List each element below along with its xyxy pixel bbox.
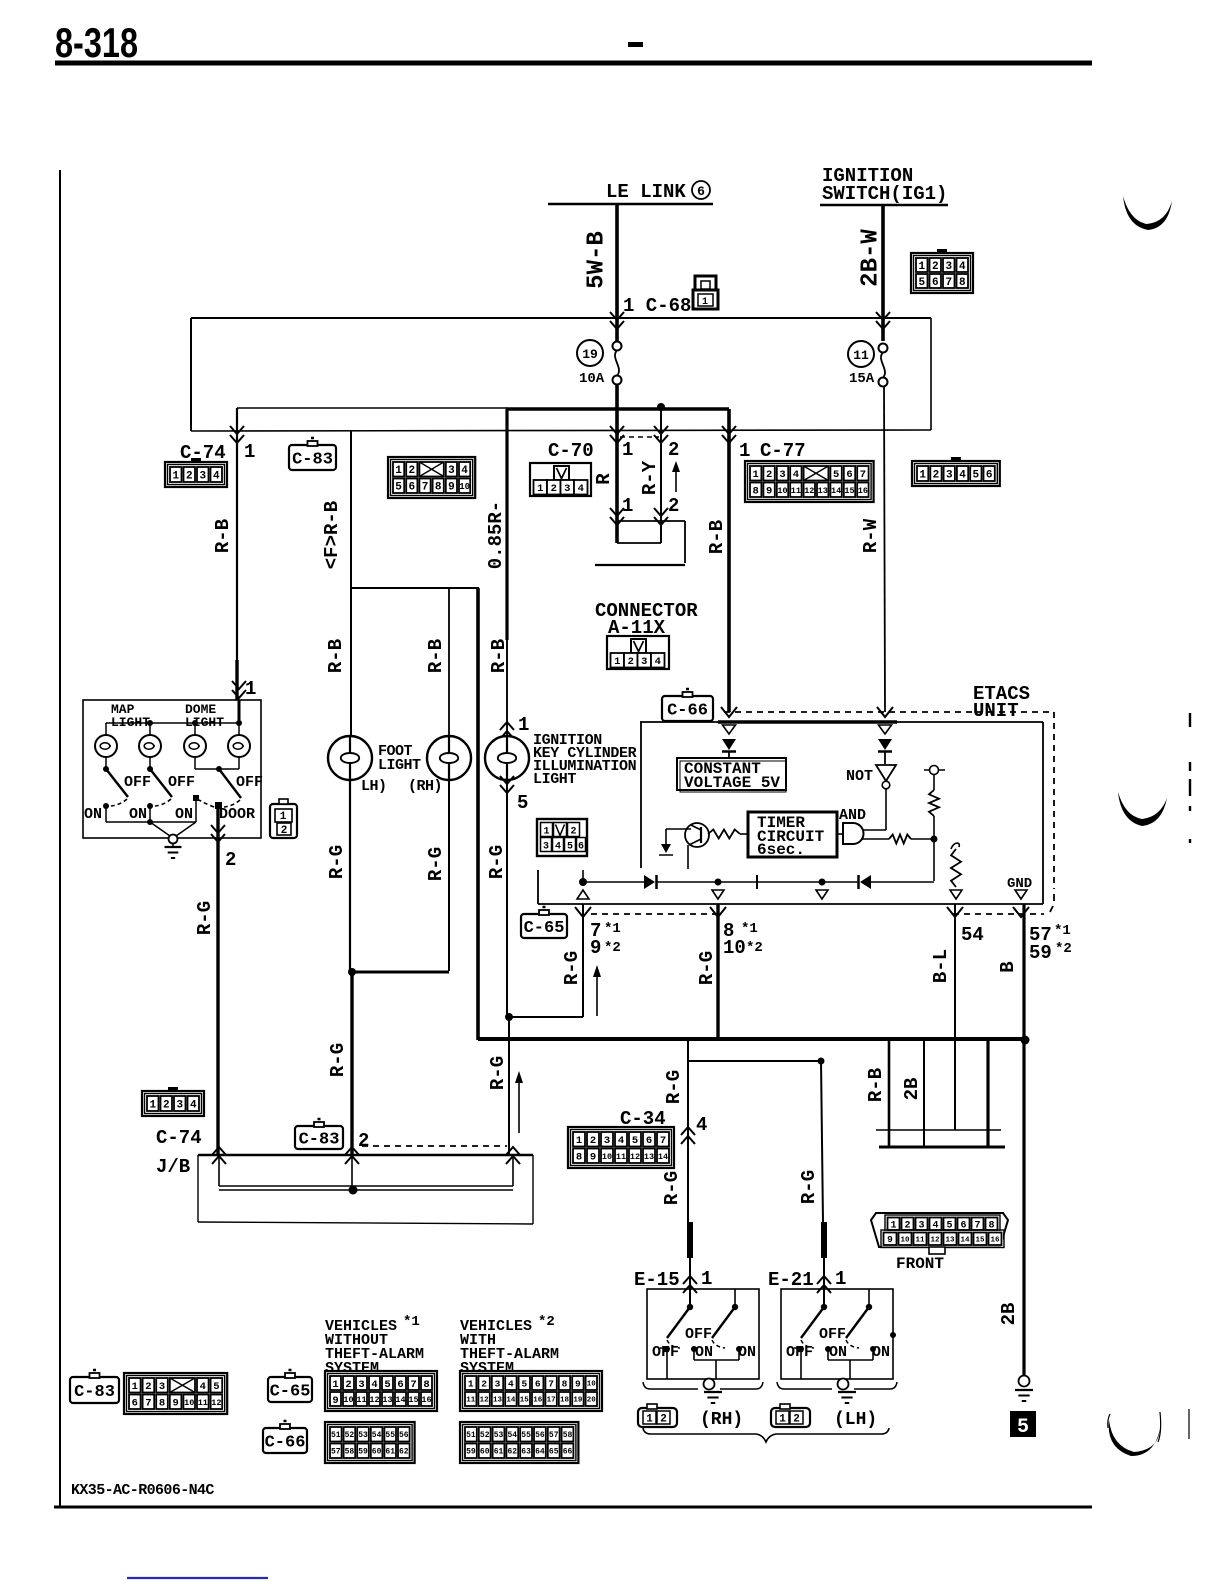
- constant voltage 5V box: [677, 758, 786, 790]
- svg-text:58: 58: [563, 1431, 573, 1440]
- svg-text:C-74: C-74: [156, 1127, 202, 1149]
- svg-text:5: 5: [973, 469, 980, 481]
- wire R-W from fuse 11 to ETACS: [884, 386, 885, 712]
- connector arrow at C-68 on bus: [610, 312, 624, 320]
- connector arrows at room lamp unit: [232, 681, 246, 689]
- svg-text:56: 56: [535, 1431, 545, 1440]
- E-21 contacts: [798, 1346, 804, 1352]
- svg-text:8: 8: [959, 277, 966, 289]
- svg-text:2B: 2B: [998, 1303, 1020, 1326]
- svg-text:1: 1: [172, 470, 179, 482]
- svg-text:14: 14: [960, 1236, 970, 1244]
- svg-text:R-G: R-G: [425, 847, 447, 881]
- svg-text:LIGHT: LIGHT: [533, 771, 576, 788]
- svg-text:R-B: R-B: [865, 1068, 887, 1102]
- svg-text:13: 13: [945, 1236, 955, 1244]
- svg-text:R-G: R-G: [194, 901, 216, 935]
- svg-text:2B: 2B: [901, 1078, 923, 1101]
- svg-text:11: 11: [915, 1236, 925, 1244]
- connector arrows J/B pin C-74: [212, 1147, 226, 1155]
- svg-text:R-G: R-G: [487, 1056, 509, 1090]
- svg-text:8: 8: [423, 1379, 429, 1391]
- connector arrow C-77 pin1 at bus2: [722, 426, 736, 434]
- svg-text:2: 2: [590, 1135, 596, 1147]
- svg-text:3: 3: [543, 842, 549, 853]
- connector block 10-pin: [388, 457, 475, 498]
- wire into E-21: [823, 1258, 825, 1307]
- connector arrows at E-15: [683, 1276, 697, 1284]
- junction dot pin 8/10: [715, 879, 722, 886]
- svg-text:2: 2: [628, 656, 634, 668]
- svg-text:ON: ON: [695, 1344, 713, 1361]
- header rule: [55, 61, 1092, 66]
- svg-text:5: 5: [213, 1381, 219, 1393]
- foot light LH lamp: [328, 736, 372, 780]
- svg-text:*2: *2: [746, 940, 763, 956]
- svg-text:19: 19: [582, 347, 598, 362]
- svg-text:14: 14: [395, 1395, 405, 1405]
- svg-text:R-B: R-B: [706, 520, 728, 554]
- room lamp feed wire: [106, 722, 239, 724]
- svg-text:3: 3: [946, 469, 953, 481]
- svg-text:4: 4: [508, 1378, 514, 1389]
- svg-text:12: 12: [804, 486, 814, 496]
- svg-text:16: 16: [990, 1236, 1000, 1244]
- wire to NOT gate: [884, 752, 886, 764]
- svg-text:4: 4: [655, 656, 661, 668]
- svg-text:4: 4: [793, 469, 799, 481]
- svg-text:*1: *1: [1054, 923, 1071, 939]
- svg-text:10: 10: [900, 1236, 910, 1244]
- svg-text:57: 57: [549, 1431, 559, 1440]
- wire R (C-70 pin 1, thick): [615, 431, 619, 543]
- fuse 11 15A: [879, 344, 888, 353]
- wire 2B-W from ignition switch: [881, 205, 885, 341]
- output pin marker 54: [950, 890, 962, 899]
- connector A-11X (4 pin with key): [607, 636, 669, 669]
- svg-text:14: 14: [506, 1397, 516, 1405]
- svg-text:3: 3: [358, 1379, 364, 1391]
- svg-text:54: 54: [372, 1431, 382, 1440]
- E-21 switch box: [781, 1289, 893, 1379]
- connector arrow pin 7/9: [575, 907, 591, 917]
- wire R1 to junction: [933, 816, 935, 839]
- switch 2 (map light): [147, 766, 153, 772]
- svg-text:OFF: OFF: [168, 774, 195, 791]
- svg-text:*1: *1: [604, 921, 621, 937]
- svg-text:B-L: B-L: [930, 949, 952, 983]
- E-15 switch arms: [667, 1307, 690, 1338]
- svg-text:4: 4: [959, 261, 966, 273]
- svg-text:6: 6: [397, 1379, 403, 1391]
- lamp 3/4 leads: [194, 757, 196, 769]
- svg-text:10: 10: [459, 482, 470, 492]
- svg-text:R-G: R-G: [663, 1070, 685, 1104]
- resistor R4 hook: [951, 843, 959, 849]
- svg-text:ON: ON: [872, 1344, 890, 1361]
- connector arrow C-70 pin2 at bus2: [654, 426, 668, 434]
- svg-text:1: 1: [332, 1379, 338, 1391]
- ON bus inside room lamp unit: [105, 806, 107, 822]
- svg-text:1: 1: [132, 1381, 138, 1393]
- svg-text:C-70: C-70: [548, 440, 594, 462]
- connector C-83 icon (top): [289, 445, 336, 470]
- svg-text:17: 17: [547, 1397, 556, 1405]
- svg-text:R-B: R-B: [425, 639, 447, 673]
- junction on branch wire: [657, 403, 665, 411]
- line below joint box: [595, 564, 685, 566]
- svg-text:OFF: OFF: [124, 774, 151, 791]
- connector block 6-pin keyed (key lamp): [537, 819, 587, 856]
- E-15 dashed throws: [667, 1340, 680, 1348]
- connector arrow pin 8/10: [710, 907, 726, 917]
- wire R-G below key lamp: [506, 780, 508, 1017]
- ground terminal room lamp: [169, 835, 178, 844]
- svg-text:15: 15: [844, 486, 854, 496]
- svg-text:R-G: R-G: [696, 951, 718, 985]
- svg-text:6: 6: [132, 1398, 138, 1410]
- svg-text:15: 15: [408, 1395, 418, 1405]
- E-15 switch box: [647, 1289, 759, 1379]
- svg-text:R-G: R-G: [326, 845, 348, 879]
- svg-text:R-G: R-G: [661, 1171, 683, 1205]
- svg-text:8: 8: [576, 1152, 582, 1164]
- svg-text:R-Y: R-Y: [639, 460, 661, 495]
- svg-text:NOT: NOT: [846, 768, 873, 785]
- svg-text:5: 5: [1017, 1416, 1029, 1439]
- svg-text:57: 57: [331, 1448, 341, 1457]
- diode D4: [860, 875, 871, 889]
- svg-text:C-66: C-66: [667, 702, 708, 721]
- ignition key cylinder illumination lamp: [485, 736, 529, 780]
- svg-text:6: 6: [846, 469, 852, 481]
- svg-text:2: 2: [551, 483, 557, 495]
- E-15 case bracket: [643, 1382, 698, 1389]
- joint RH to LH foot light wires: [352, 971, 449, 974]
- wire junction down: [933, 839, 935, 881]
- svg-text:C-83: C-83: [292, 451, 333, 470]
- dashed throw (switch3 to door contact): [199, 800, 214, 807]
- svg-text:7: 7: [660, 1135, 666, 1147]
- svg-text:1: 1: [835, 1268, 846, 1290]
- svg-text:2: 2: [345, 1379, 351, 1391]
- svg-text:(RH): (RH): [408, 778, 442, 795]
- svg-text:14: 14: [658, 1152, 668, 1162]
- wire B-L from pin 54: [954, 904, 956, 1130]
- E-15 terminal wires: [666, 1349, 668, 1379]
- svg-text:R: R: [593, 473, 615, 485]
- svg-text:3: 3: [779, 469, 785, 481]
- wire R-B to ETACS (thick): [727, 409, 731, 712]
- wire R-B stub: [888, 1039, 891, 1147]
- svg-text:4: 4: [190, 1099, 197, 1111]
- resistor R1 (vertical): [929, 790, 939, 816]
- svg-text:3: 3: [945, 261, 952, 273]
- connector block 8-pin (top right): [937, 249, 947, 255]
- svg-text:8-318: 8-318: [55, 19, 138, 66]
- branch to foot lights: [351, 587, 479, 589]
- svg-text:1: 1: [622, 495, 633, 517]
- svg-text:2: 2: [933, 469, 940, 481]
- svg-text:4: 4: [959, 469, 966, 481]
- svg-text:C-77: C-77: [760, 440, 806, 462]
- svg-text:ON: ON: [829, 1344, 847, 1361]
- svg-text:5: 5: [384, 1379, 390, 1391]
- svg-text:61: 61: [494, 1448, 504, 1457]
- svg-text:R-G: R-G: [486, 845, 508, 879]
- diagnosis connector: [871, 1213, 1008, 1247]
- svg-text:1: 1: [701, 1268, 712, 1290]
- svg-text:56: 56: [399, 1431, 409, 1440]
- branch wire below fuse 19 (horizontal, thin then thick): [237, 407, 507, 409]
- svg-text:60: 60: [480, 1448, 490, 1457]
- svg-text:R-G: R-G: [327, 1043, 349, 1077]
- room lamp unit box: [83, 700, 261, 838]
- wire R-G key lamp to junction: [508, 1017, 510, 1156]
- wire R-G to C-34/E-15: [687, 1039, 689, 1222]
- svg-text:6: 6: [408, 482, 415, 494]
- svg-text:LIGHT: LIGHT: [378, 757, 421, 774]
- svg-text:4: 4: [555, 842, 561, 853]
- connector arrow into ETACS (R-B): [721, 707, 737, 717]
- svg-text:10: 10: [723, 937, 746, 959]
- wire thick segment to E-15: [687, 1222, 693, 1258]
- wire to junction: [911, 838, 934, 840]
- connector arrows J/B pin 3: [506, 1147, 520, 1155]
- ETACS dashed border bottom right: [953, 913, 1044, 915]
- output pin marker GND: [1015, 890, 1027, 899]
- svg-text:*2: *2: [538, 1314, 555, 1330]
- svg-text:52: 52: [480, 1431, 490, 1440]
- svg-text:6: 6: [932, 277, 939, 289]
- svg-text:9: 9: [590, 937, 601, 959]
- svg-text:12: 12: [930, 1236, 940, 1244]
- svg-text:R-W: R-W: [860, 518, 882, 553]
- E-21 case bracket: [777, 1382, 832, 1389]
- svg-text:11: 11: [853, 348, 869, 363]
- connector block C-66 16-pin: [460, 1422, 578, 1463]
- svg-text:4: 4: [200, 1381, 206, 1393]
- connector arrows C-70 mating pin1: [610, 508, 624, 516]
- svg-text:1: 1: [468, 1378, 474, 1389]
- E-21 dashed throws: [801, 1340, 814, 1348]
- svg-text:8: 8: [435, 482, 442, 494]
- junction node in ETACS: [931, 836, 938, 843]
- svg-text:3: 3: [448, 465, 455, 477]
- svg-text:1 C-68: 1 C-68: [623, 295, 691, 317]
- junction dot E-21 branch: [818, 1058, 825, 1065]
- svg-text:1: 1: [702, 297, 708, 308]
- fuse 19 circled number: [577, 340, 603, 366]
- svg-text:3: 3: [199, 470, 206, 482]
- svg-text:59: 59: [358, 1448, 368, 1457]
- wire to door switches (thick): [216, 805, 219, 1156]
- svg-text:2: 2: [660, 1414, 667, 1426]
- internal bus wire d: [871, 881, 934, 883]
- wire 5W-B from fusible link: [615, 205, 619, 341]
- svg-text:SWITCH(IG1): SWITCH(IG1): [822, 183, 947, 205]
- ETACS box outline: [640, 721, 1043, 723]
- svg-text:R-B: R-B: [325, 639, 347, 673]
- svg-text:1: 1: [280, 811, 287, 823]
- svg-text:1: 1: [918, 261, 925, 273]
- svg-text:9: 9: [448, 482, 455, 494]
- internal pin stub 7/9: [582, 870, 584, 881]
- svg-text:1: 1: [244, 441, 255, 463]
- svg-text:8: 8: [753, 486, 759, 498]
- svg-text:1: 1: [245, 678, 256, 700]
- J/B internal wires: [218, 1155, 220, 1186]
- junction dot on E-21 box edge: [890, 1332, 896, 1338]
- wire R-G below RH lamp: [448, 780, 450, 971]
- svg-text:4: 4: [578, 483, 584, 495]
- svg-text:ON: ON: [175, 806, 193, 823]
- svg-text:4: 4: [213, 470, 220, 482]
- svg-text:*2: *2: [604, 940, 621, 956]
- svg-text:2: 2: [163, 1099, 170, 1111]
- svg-text:10A: 10A: [579, 371, 605, 387]
- wire 0.85R (thick): [505, 409, 508, 640]
- svg-text:7: 7: [410, 1379, 416, 1391]
- connector C-66 icon (ETACS): [662, 696, 713, 721]
- svg-text:1: 1: [576, 1135, 582, 1147]
- svg-text:KX35-AC-R0606-N4C: KX35-AC-R0606-N4C: [71, 1482, 214, 1499]
- svg-text:5: 5: [833, 469, 839, 481]
- svg-text:12: 12: [369, 1395, 379, 1405]
- connector C-83 icon (J/B): [295, 1126, 343, 1149]
- svg-text:65: 65: [549, 1448, 559, 1457]
- J/B box outline: [198, 1154, 533, 1157]
- dome light lamp 2: [238, 723, 240, 735]
- resistor R3 (AND output): [889, 835, 911, 844]
- connector arrow C-70 pin1 at bus2: [610, 426, 624, 434]
- svg-text:UNIT: UNIT: [973, 700, 1019, 722]
- switch 3 (dome light): [216, 766, 222, 772]
- ground ladder bar 1: [876, 1129, 1001, 1131]
- svg-text:7: 7: [945, 277, 952, 289]
- svg-text:55: 55: [521, 1431, 531, 1440]
- ETACS dashed border right: [1053, 712, 1055, 889]
- svg-text:C-83: C-83: [299, 1131, 340, 1150]
- svg-text:6: 6: [986, 469, 993, 481]
- ETACS dashed border bottom left: [591, 913, 718, 915]
- svg-text:2: 2: [186, 470, 193, 482]
- wire R-G trunk to J/B (thick): [350, 972, 353, 1156]
- svg-text:5: 5: [517, 792, 528, 814]
- svg-text:6: 6: [535, 1378, 541, 1389]
- svg-text:1: 1: [395, 465, 402, 477]
- wire stub (thick): [986, 1039, 989, 1147]
- dashed connector tie C-70: [620, 436, 659, 438]
- joint box below C-70: [617, 520, 685, 522]
- connector arrows C-34: [681, 1127, 695, 1135]
- svg-text:2: 2: [358, 1130, 369, 1152]
- connector C-65 icon (ETACS pins): [521, 914, 567, 938]
- svg-text:2: 2: [145, 1381, 151, 1393]
- foot light RH lamp: [427, 736, 471, 780]
- page left border: [59, 170, 61, 1508]
- direction arrow (lower R-G): [518, 1078, 520, 1133]
- svg-text:6: 6: [646, 1135, 652, 1147]
- svg-text:15: 15: [975, 1236, 985, 1244]
- transistor Q1: [685, 823, 709, 847]
- svg-text:OFF: OFF: [685, 1326, 712, 1343]
- connector block C-34 14-pin: [568, 1127, 674, 1168]
- E-21 connector 1/2 icon: [771, 1408, 810, 1427]
- main thick bus R-G: [478, 1037, 1025, 1041]
- direction arrow (R-Y): [675, 466, 677, 492]
- svg-text:2: 2: [766, 469, 772, 481]
- svg-text:7: 7: [860, 469, 866, 481]
- svg-text:12: 12: [480, 1397, 490, 1405]
- wire R-B to foot light RH: [448, 588, 450, 736]
- connector arrow C-74 pin1 at bus2: [230, 426, 244, 434]
- svg-text:3: 3: [176, 1099, 183, 1111]
- svg-text:2: 2: [408, 465, 415, 477]
- svg-text:5: 5: [521, 1378, 527, 1389]
- svg-text:64: 64: [535, 1448, 545, 1457]
- E-15 ground terminal: [704, 1379, 715, 1390]
- wire thick segment to E-21: [821, 1222, 827, 1258]
- svg-text:59: 59: [466, 1448, 476, 1457]
- svg-text:2: 2: [793, 1414, 800, 1426]
- svg-text:ON: ON: [129, 806, 147, 823]
- connector block C-65 20-pin: [460, 1371, 602, 1411]
- lamp 1 lead: [105, 757, 107, 769]
- wire from fuse 19 down (thick): [615, 384, 619, 434]
- internal bus wire c: [718, 881, 858, 883]
- svg-text:7: 7: [145, 1398, 151, 1410]
- svg-text:66: 66: [563, 1448, 573, 1457]
- svg-text:1: 1: [543, 827, 549, 838]
- wire to constant voltage box: [728, 752, 730, 758]
- underline under fusible link label: [548, 203, 713, 206]
- connector arrow pin 57/59: [1013, 907, 1029, 917]
- map light lamp 2: [149, 723, 151, 735]
- svg-text:E-15: E-15: [634, 1269, 680, 1291]
- svg-text:LE LINK: LE LINK: [606, 181, 686, 203]
- junction dot at B wire: [1021, 1036, 1030, 1045]
- svg-text:OFF: OFF: [786, 1344, 813, 1361]
- svg-text:ON: ON: [738, 1344, 756, 1361]
- junction dot inside J/B: [349, 1186, 358, 1195]
- svg-text:1: 1: [518, 714, 529, 736]
- connector arrows J/B pin C-83: [345, 1147, 359, 1155]
- connector arrows leaving room lamp unit: [211, 825, 225, 833]
- connector C-70 (4 pin with key): [530, 463, 591, 496]
- junction dot mid: [819, 879, 826, 886]
- connector arrow on ignition wire at bus: [876, 312, 890, 320]
- connector arrow into ETACS (R-W): [877, 707, 893, 717]
- wire from terminal to R1: [933, 775, 935, 790]
- connector block 6-pin: [951, 457, 961, 463]
- diode D2 (ETACS input): [878, 739, 892, 750]
- direction arrow (pin7 wire): [596, 972, 598, 1016]
- connector block C-77 16-pin: [745, 461, 874, 502]
- ground terminal (B wire): [1019, 1376, 1030, 1387]
- svg-text:7: 7: [548, 1378, 554, 1389]
- svg-text:9: 9: [575, 1378, 581, 1389]
- svg-text:FRONT: FRONT: [896, 1255, 944, 1273]
- svg-text:4: 4: [618, 1135, 624, 1147]
- ground leads room lamp: [150, 822, 170, 836]
- E-21 ground: [838, 1391, 856, 1393]
- svg-text:3: 3: [564, 483, 570, 495]
- fuse 11 circled number: [848, 341, 874, 367]
- page bottom border: [54, 1506, 1092, 1509]
- svg-text:13: 13: [382, 1395, 392, 1405]
- connector C-74 (4 pin): [191, 458, 201, 464]
